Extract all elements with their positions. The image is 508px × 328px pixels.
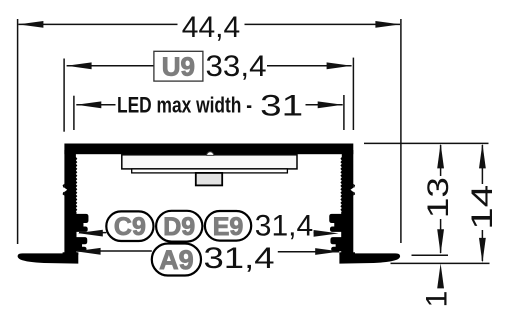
leader line row2 left	[77, 250, 152, 252]
arrowhead row2 right	[315, 248, 340, 255]
arrowhead 14 bottom	[479, 238, 486, 263]
arrowhead 13 top	[437, 143, 444, 168]
svg-text:U9: U9	[162, 51, 195, 81]
arrowhead row2 left	[76, 248, 101, 255]
ovals C9 D9 E9	[106, 211, 251, 242]
arrowhead 44,4 left	[18, 21, 43, 28]
leader line row1 right	[314, 232, 316, 234]
svg-text:31,4: 31,4	[255, 210, 313, 243]
arrowhead 44,4 right	[375, 21, 400, 28]
U9 label box	[154, 51, 203, 81]
svg-text:C9: C9	[114, 213, 146, 241]
arrowhead row1 left	[78, 230, 103, 237]
svg-text:31,4: 31,4	[204, 242, 275, 275]
oval A9	[152, 244, 201, 276]
arrowhead 13 bottom	[437, 229, 444, 254]
labels C9 D9 E9	[114, 213, 243, 241]
svg-text:D9: D9	[163, 213, 195, 241]
white plate	[122, 155, 297, 169]
svg-text:E9: E9	[213, 213, 244, 241]
arrowhead LED width right	[318, 101, 343, 108]
13 line	[440, 145, 442, 176]
svg-text:33,4: 33,4	[206, 50, 267, 83]
svg-text:31: 31	[260, 90, 303, 123]
thin strip	[132, 169, 288, 173]
arrowhead 14 top	[479, 143, 486, 168]
arrowhead LED width left	[76, 101, 101, 108]
locator bump	[207, 152, 214, 156]
leader line row1 left	[79, 232, 106, 234]
14 line	[481, 145, 483, 184]
svg-text:13: 13	[422, 177, 455, 218]
center tab	[196, 173, 222, 186]
right wall	[330, 150, 400, 264]
svg-text:14: 14	[466, 185, 499, 230]
leader line row2 right	[278, 251, 339, 253]
arrowhead 33,4 right	[327, 62, 352, 69]
svg-text:LED max width -: LED max width -	[117, 93, 252, 118]
arrowhead row1 right	[314, 230, 339, 237]
svg-text:44,4: 44,4	[182, 11, 240, 44]
svg-text:1: 1	[421, 291, 454, 308]
left wall	[18, 150, 88, 264]
svg-text:A9: A9	[159, 245, 194, 275]
arrowhead 33,4 left	[67, 62, 92, 69]
arrowhead 1 up	[437, 263, 444, 288]
top bar	[64, 144, 353, 155]
